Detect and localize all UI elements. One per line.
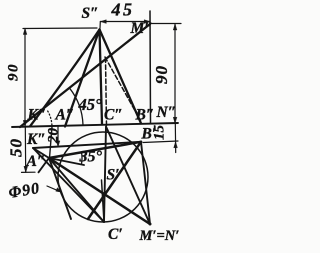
line A' down steep: [49, 158, 71, 219]
svg-text:A″: A″: [26, 153, 46, 170]
arrow up left dim: [23, 29, 27, 35]
svg-text:M″: M″: [130, 20, 153, 37]
line K' to B': [33, 142, 141, 148]
line B' through S' region to circle lower-left: [88, 142, 141, 219]
vertical line M" N": [149, 11, 152, 123]
leader line F90: [47, 186, 60, 191]
wire B' level extension line: [143, 141, 178, 143]
line A' 35-deg leg: [49, 158, 84, 165]
point M'=N': [149, 223, 152, 226]
wire: M-level extension to right dim: [151, 23, 181, 25]
45 degree angle arc at K0: [70, 88, 83, 125]
line S' to C': [102, 180, 105, 222]
wire: S" extension up: [99, 22, 101, 29]
arrow up at B' level (from below): [174, 142, 178, 148]
svg-text:B′: B′: [141, 126, 157, 143]
svg-text:50: 50: [7, 138, 26, 157]
line A' to M'=N': [49, 158, 150, 224]
dotted small arc: [48, 111, 52, 125]
dimension 15 line below axis right: [174, 123, 176, 152]
edge A'B': [49, 142, 141, 158]
edge S" to K": [30, 30, 100, 127]
arrow down right dim: [173, 117, 177, 123]
dimension 90 right vertical: [174, 24, 176, 123]
edge S" B": [100, 30, 142, 124]
line A' to C': [49, 158, 104, 222]
svg-text:S′: S′: [107, 167, 120, 184]
35 degree arc at A': [80, 152, 83, 164]
svg-text:90: 90: [152, 65, 171, 84]
dimension 50 left below axis: [24, 127, 26, 173]
line K' to A': [33, 148, 49, 158]
wire: S-level extension line top left: [23, 27, 97, 30]
line S" down to axis (solid near vertical): [100, 30, 103, 125]
svg-text:45°: 45°: [78, 95, 103, 114]
line C" foot down to C': [104, 127, 106, 223]
svg-text:35°: 35°: [79, 149, 103, 166]
circle F90: [58, 132, 148, 222]
line M" to K0 (45 deg line): [20, 24, 150, 127]
svg-text:B″: B″: [135, 107, 155, 124]
svg-text:M′=N′: M′=N′: [139, 228, 180, 244]
svg-text:45: 45: [111, 0, 135, 20]
dimension 45 top line: [101, 21, 151, 23]
svg-text:C″: C″: [104, 107, 123, 124]
dashed line apex to B": [105, 57, 141, 121]
line A' down-left to 50 tick: [39, 158, 50, 172]
arrow down left dim: [23, 120, 27, 126]
svg-text:20: 20: [46, 128, 62, 145]
line B' to M'=N': [141, 142, 150, 224]
dimension 90 left vertical line: [24, 29, 26, 127]
svg-text:90: 90: [6, 63, 22, 81]
arrow down 20 dim: [56, 141, 60, 147]
line K' to C': [33, 148, 104, 222]
svg-text:K″: K″: [27, 107, 47, 124]
projector A" to A': [50, 127, 53, 158]
wire A' level extension tick: [22, 171, 36, 173]
line C" foot to M'=N': [106, 127, 150, 224]
svg-text:K″: K″: [26, 131, 46, 148]
dimension 20 line (axis to K' level): [57, 126, 59, 146]
arrow up right dim: [173, 24, 177, 30]
arrow right 45 dim: [144, 20, 150, 24]
arrow down 50 dim: [24, 166, 28, 172]
edge S" to mid foot: [65, 30, 100, 127]
axis line: [12, 123, 178, 127]
svg-text:C′: C′: [108, 226, 123, 243]
arrowhead of F90 leader on circle: [56, 188, 62, 192]
svg-text:N″: N″: [156, 104, 177, 121]
dashed vertical projector of C": [106, 58, 107, 126]
svg-text:S″: S″: [82, 5, 99, 22]
arrow left 45 dim: [101, 20, 107, 24]
svg-text:A″: A″: [55, 107, 75, 124]
